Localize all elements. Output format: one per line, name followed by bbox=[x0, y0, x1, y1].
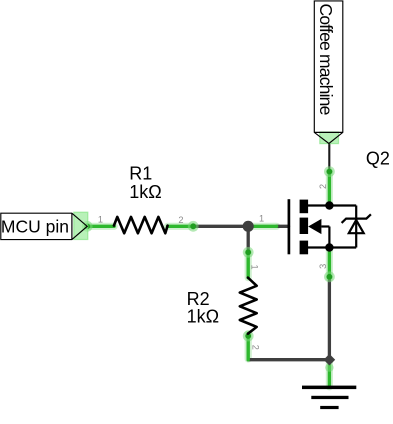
svg-text:1kΩ: 1kΩ bbox=[129, 182, 161, 202]
svg-text:1kΩ: 1kΩ bbox=[187, 306, 219, 326]
svg-text:2: 2 bbox=[318, 184, 328, 189]
svg-text:Coffee machine: Coffee machine bbox=[316, 4, 336, 115]
svg-text:Q2: Q2 bbox=[366, 148, 390, 168]
svg-text:2: 2 bbox=[178, 215, 183, 225]
svg-text:MCU pin: MCU pin bbox=[1, 216, 69, 236]
svg-text:1: 1 bbox=[250, 264, 260, 269]
svg-text:2: 2 bbox=[250, 345, 260, 350]
svg-text:1: 1 bbox=[98, 214, 103, 224]
svg-text:R1: R1 bbox=[129, 163, 152, 183]
svg-text:1: 1 bbox=[259, 213, 264, 223]
svg-text:3: 3 bbox=[318, 264, 328, 269]
